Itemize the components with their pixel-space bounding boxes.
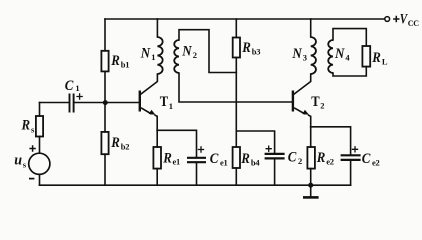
node ground junction dot <box>308 183 313 188</box>
wire input line from source to T1 base <box>40 102 139 104</box>
svg-text:N: N <box>334 46 345 62</box>
source minus sign <box>29 178 34 180</box>
label +Vcc <box>393 11 419 27</box>
resistor RL <box>362 46 370 67</box>
wire N4 to RL loop <box>333 29 366 76</box>
svg-text:C: C <box>288 150 297 166</box>
wire T2 emitter down <box>310 116 312 126</box>
resistor Re1 <box>153 147 161 169</box>
svg-text:R: R <box>316 150 325 166</box>
wire emitter node to Ce1 <box>157 130 196 185</box>
wire Rb1 branch verticals <box>104 19 106 103</box>
node input junction dot <box>103 100 108 105</box>
wire top supply rail <box>105 18 385 20</box>
svg-text:C: C <box>65 78 74 94</box>
svg-text:R: R <box>21 117 30 133</box>
svg-text:T: T <box>160 94 169 110</box>
svg-text:2: 2 <box>298 156 302 166</box>
svg-text:b2: b2 <box>121 141 129 151</box>
wire T1 emitter down <box>156 116 158 130</box>
transformer winding N2 <box>174 40 179 73</box>
wire Re2 verticals <box>310 127 312 185</box>
svg-text:1: 1 <box>151 52 155 62</box>
resistor Rb2 <box>101 132 108 154</box>
svg-text:C: C <box>210 151 219 167</box>
svg-text:e2: e2 <box>372 158 379 168</box>
capacitor Ce1 <box>187 146 206 162</box>
svg-text:u: u <box>14 153 22 169</box>
svg-text:R: R <box>110 135 119 151</box>
svg-text:e1: e1 <box>173 157 180 167</box>
wire N3 top lead to rail <box>310 19 312 37</box>
capacitor Ce2 <box>341 146 361 160</box>
resistor Re2 <box>307 147 315 169</box>
svg-text:L: L <box>382 57 388 67</box>
svg-text:CC: CC <box>408 19 419 28</box>
resistor Rb3 <box>233 38 240 58</box>
svg-text:R: R <box>240 151 249 167</box>
wire N1 top lead to rail <box>156 19 158 37</box>
wire Rb3 verticals and down to Rb4 <box>235 19 237 147</box>
ground <box>303 185 319 197</box>
svg-text:R: R <box>241 40 250 56</box>
wire N2 top lead to Rb3 bottom <box>179 30 236 73</box>
transistor T2 <box>292 91 311 117</box>
resistor Rb4 <box>233 147 240 168</box>
transformer winding N3 <box>311 37 316 74</box>
svg-text:N: N <box>181 43 192 59</box>
source plus sign <box>29 145 35 151</box>
transformer winding N1 <box>157 37 162 74</box>
svg-text:N: N <box>140 45 151 61</box>
wire Rb2 verticals <box>104 103 106 186</box>
wire Re1 verticals <box>156 130 158 185</box>
svg-text:2: 2 <box>193 50 197 60</box>
svg-text:R: R <box>371 50 380 66</box>
transformer winding N4 <box>328 40 333 73</box>
wire emitter2 node to Ce2 <box>311 127 351 185</box>
svg-text:1: 1 <box>169 101 173 111</box>
wire C2 branch <box>236 131 274 185</box>
svg-text:R: R <box>110 53 119 69</box>
svg-text:3: 3 <box>303 52 307 62</box>
svg-text:b4: b4 <box>251 158 260 168</box>
wire source branch vertical <box>39 103 41 186</box>
wire ground rail <box>40 184 351 186</box>
svg-text:b1: b1 <box>121 59 129 69</box>
resistor Rb1 <box>101 51 108 72</box>
capacitor C2 <box>265 146 285 159</box>
terminal +Vcc <box>385 17 390 22</box>
svg-text:C: C <box>362 151 371 167</box>
resistor Rs <box>36 116 43 137</box>
transistor T1 <box>139 91 158 117</box>
svg-text:1: 1 <box>75 83 79 93</box>
svg-text:T: T <box>311 94 320 110</box>
svg-text:N: N <box>292 46 303 62</box>
svg-text:b3: b3 <box>252 47 260 57</box>
svg-text:R: R <box>162 151 171 167</box>
svg-text:2: 2 <box>320 101 324 111</box>
svg-text:e2: e2 <box>326 157 333 167</box>
wire Rb4 bottom <box>235 168 237 185</box>
wire T1 collector to N1 <box>141 74 157 94</box>
capacitor C1 <box>70 93 83 112</box>
wire T2 collector to N3 <box>294 74 311 94</box>
source us <box>29 153 50 174</box>
wire N2 bottom to T2 base <box>179 73 292 102</box>
svg-text:e1: e1 <box>220 158 227 168</box>
